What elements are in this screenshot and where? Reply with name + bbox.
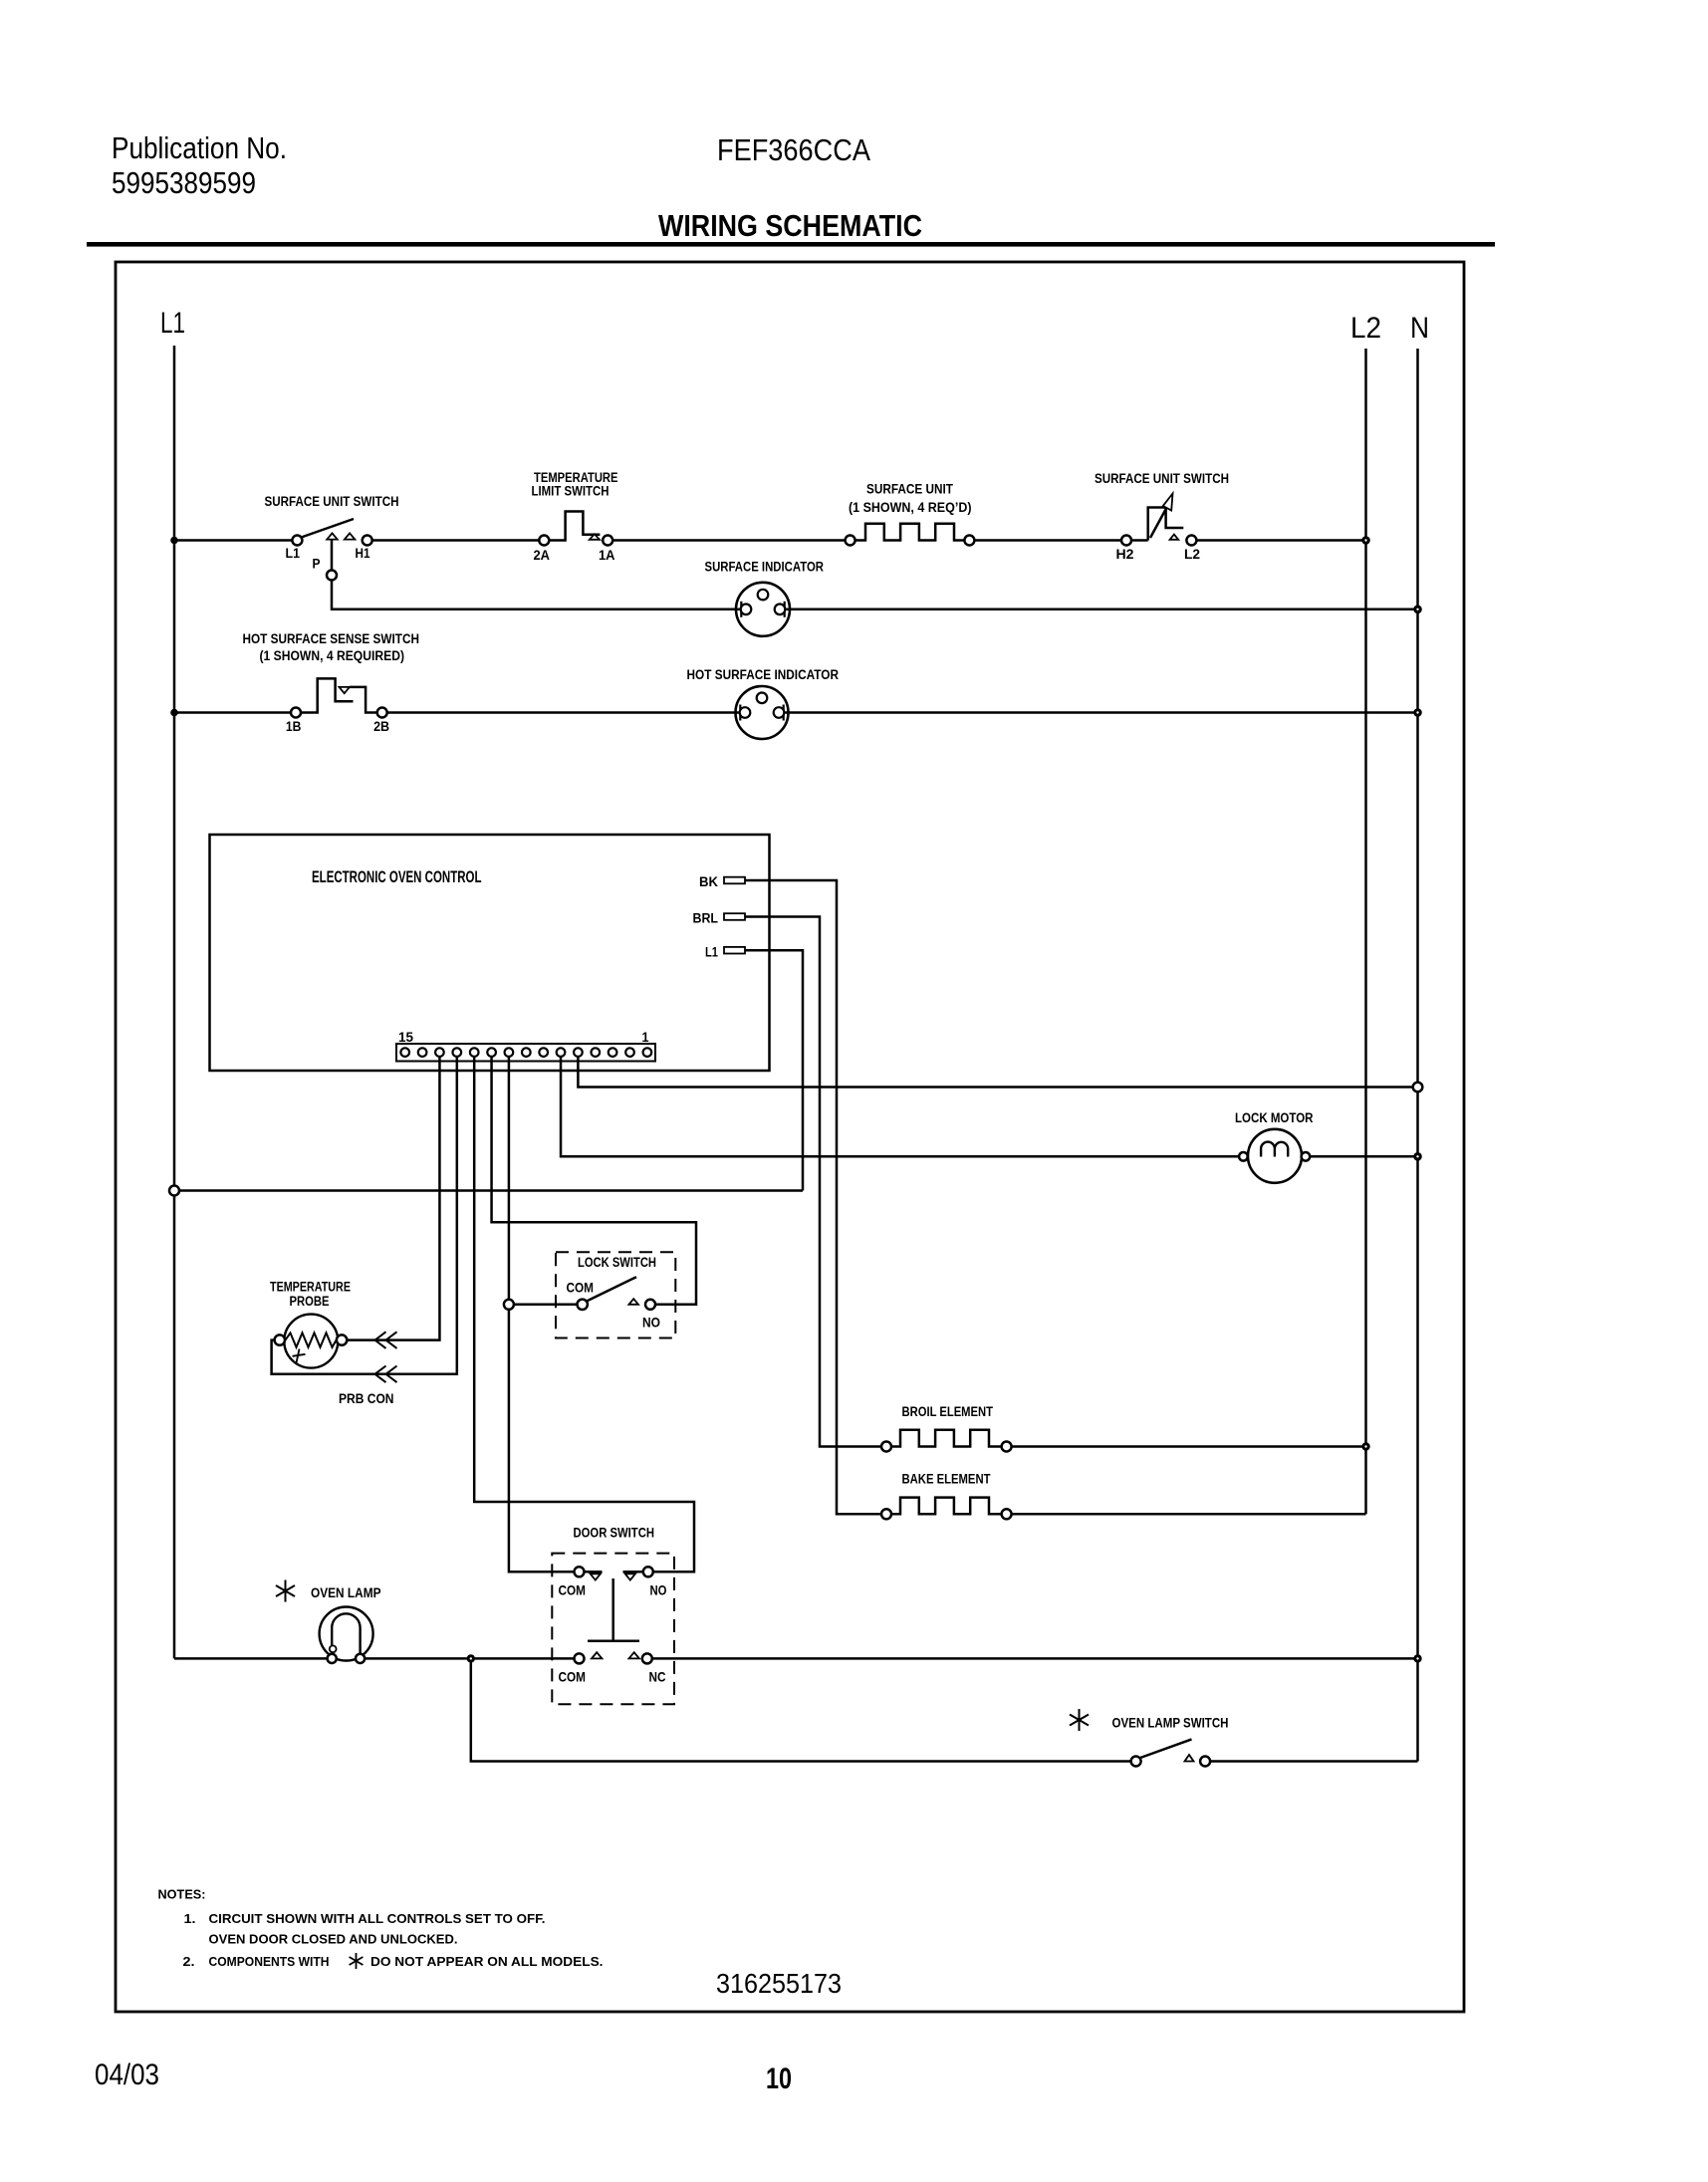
wire L1 rail to EOC L1 input [179, 1189, 803, 1192]
pin 9 of connector strip [505, 1048, 514, 1057]
svg-text:H2: H2 [1116, 547, 1134, 562]
junction on N rail row2 [1413, 606, 1422, 614]
svg-text:OVEN LAMP: OVEN LAMP [311, 1585, 381, 1600]
svg-text:CIRCUIT SHOWN WITH ALL CONTROL: CIRCUIT SHOWN WITH ALL CONTROLS SET TO O… [209, 1911, 546, 1926]
wire N rail vertical [1416, 349, 1419, 1762]
pin 1 of connector strip [643, 1048, 652, 1057]
svg-text:COMPONENTS WITH: COMPONENTS WITH [209, 1954, 330, 1969]
connector chevron PRB upper [375, 1332, 386, 1348]
wire broil element to L2 rail [1012, 1445, 1366, 1448]
junction on N rail (open) y=1091.5 [1413, 1083, 1423, 1092]
svg-text:1A: 1A [599, 548, 615, 563]
pin 5 of connector strip [574, 1048, 583, 1057]
wire bake element to L2 rail corner [1012, 1513, 1366, 1516]
svg-text:PRB CON: PRB CON [339, 1391, 394, 1406]
wire row1 surface unit to right switch [974, 539, 1121, 542]
junction on L2 rail row1 [1361, 536, 1370, 545]
lamp OVEN LAMP [285, 1580, 287, 1602]
svg-text:316255173: 316255173 [716, 1968, 842, 1999]
svg-text:10: 10 [766, 2062, 792, 2095]
svg-text:1.: 1. [184, 1911, 196, 1926]
wire pin6 down to lock motor row [561, 1057, 1239, 1156]
svg-text:L1: L1 [705, 945, 718, 960]
wire L1 rail vertical [173, 346, 176, 1658]
wire row1 limit switch to surface unit [612, 539, 845, 542]
schematic border frame [116, 262, 1464, 2012]
title underline rule [87, 242, 1495, 247]
terminal P (open) [327, 571, 337, 581]
svg-text:FEF366CCA: FEF366CCA [717, 132, 870, 167]
svg-text:2.: 2. [183, 1954, 195, 1969]
svg-text:L1: L1 [286, 546, 301, 561]
svg-text:(1 SHOWN, 4 REQ’D): (1 SHOWN, 4 REQ’D) [849, 500, 972, 515]
svg-text:TEMPERATURE: TEMPERATURE [270, 1280, 351, 1295]
wire door switch NC to N rail [652, 1657, 1418, 1660]
svg-text:SURFACE UNIT SWITCH: SURFACE UNIT SWITCH [265, 494, 399, 509]
svg-text:P: P [313, 557, 321, 572]
wire row3 indicator to N rail [789, 711, 1418, 714]
junction on N rail oven lamp row [1413, 1654, 1421, 1662]
node lock switch branch (open) [504, 1300, 514, 1310]
svg-text:H1: H1 [356, 546, 370, 561]
pin 11 of connector strip [470, 1048, 479, 1057]
door switch upper NO contact [623, 1571, 643, 1574]
svg-text:2B: 2B [373, 719, 389, 734]
door switch lower NC contact [642, 1653, 652, 1663]
svg-text:LOCK SWITCH: LOCK SWITCH [578, 1255, 656, 1270]
svg-text:OVEN LAMP SWITCH: OVEN LAMP SWITCH [1112, 1716, 1229, 1731]
pin 4 of connector strip [592, 1048, 601, 1057]
svg-text:PROBE: PROBE [290, 1294, 330, 1309]
connector chevron PRB lower [375, 1366, 386, 1383]
svg-text:SURFACE UNIT SWITCH: SURFACE UNIT SWITCH [1095, 471, 1229, 486]
wire L2 rail vertical [1364, 349, 1367, 1514]
door switch actuator link [611, 1578, 614, 1640]
wire pin5 down to N rail (y=1091.5) [578, 1057, 1417, 1088]
svg-text:NOTES:: NOTES: [158, 1887, 206, 1902]
svg-text:ELECTRONIC OVEN CONTROL: ELECTRONIC OVEN CONTROL [312, 867, 482, 886]
svg-text:N: N [1410, 312, 1429, 345]
wire lock switch COM branch [514, 1304, 578, 1307]
svg-text:L1: L1 [160, 307, 185, 340]
svg-text:DOOR SWITCH: DOOR SWITCH [574, 1526, 655, 1541]
svg-text:COM: COM [567, 1281, 595, 1296]
svg-text:NC: NC [649, 1670, 666, 1685]
junction on L1 rail row1 [170, 537, 178, 545]
svg-text:NO: NO [650, 1583, 667, 1598]
wire row3 from L1 to sense switch [174, 711, 291, 714]
svg-text:HOT SURFACE INDICATOR: HOT SURFACE INDICATOR [687, 667, 840, 682]
wire BK to bake element [745, 880, 881, 1514]
wire oven lamp switch to N rail [1210, 1760, 1417, 1763]
junction on L2 rail broil row [1361, 1442, 1369, 1450]
junction on L1 rail row3 [170, 709, 178, 717]
wire pin11 down to door switch upper NO [474, 1057, 694, 1572]
door switch upper COM contact [575, 1567, 585, 1576]
pin 6 of connector strip [557, 1048, 566, 1057]
svg-text:BROIL ELEMENT: BROIL ELEMENT [902, 1404, 994, 1419]
svg-text:WIRING SCHEMATIC: WIRING SCHEMATIC [658, 208, 922, 243]
pin 2 of connector strip [625, 1048, 634, 1057]
svg-text:BRL: BRL [693, 911, 719, 926]
wire branch down to oven lamp switch row [471, 1662, 1131, 1761]
svg-text:BAKE ELEMENT: BAKE ELEMENT [902, 1472, 992, 1487]
wire pin10 down to lock switch NO [492, 1057, 696, 1305]
door switch lower COM contact [575, 1653, 585, 1663]
wire P branch to row2 corner [332, 581, 736, 609]
svg-text:Publication No.: Publication No. [112, 130, 287, 165]
wire row1 to L2 rail [1196, 539, 1365, 542]
wire row1 from L1 to surface unit switch [174, 539, 293, 542]
svg-text:DO NOT APPEAR ON ALL MODELS.: DO NOT APPEAR ON ALL MODELS. [370, 1954, 604, 1969]
svg-text:5995389599: 5995389599 [112, 165, 256, 200]
wire pin12 down to temperature probe (lower) [272, 1057, 457, 1374]
svg-text:(1 SHOWN, 4 REQUIRED): (1 SHOWN, 4 REQUIRED) [260, 648, 405, 663]
svg-text:LOCK MOTOR: LOCK MOTOR [1235, 1110, 1314, 1125]
wire row1 switch to temperature limit switch [372, 539, 540, 542]
svg-text:COM: COM [559, 1670, 587, 1685]
svg-text:2A: 2A [534, 548, 551, 563]
junction door switch branch [467, 1654, 475, 1662]
svg-text:15: 15 [398, 1030, 413, 1045]
connector strip P1 (15..1) [396, 1044, 655, 1062]
pin 13 of connector strip [435, 1048, 444, 1057]
svg-text:HOT SURFACE SENSE SWITCH: HOT SURFACE SENSE SWITCH [243, 631, 420, 646]
wire oven lamp to door switch [365, 1657, 574, 1660]
svg-text:L2: L2 [1184, 547, 1200, 562]
wire EOC L1 input down to L1 rail row [745, 950, 803, 1190]
switch LOCK SWITCH (dashed enclosure) [556, 1252, 675, 1337]
wire lock motor to N rail [1310, 1155, 1417, 1158]
svg-text:L2: L2 [1350, 312, 1381, 345]
pin 14 of connector strip [418, 1048, 427, 1057]
junction on N rail lock motor row [1413, 1152, 1422, 1161]
junction on N rail row3 [1413, 708, 1422, 717]
pin 7 of connector strip [539, 1048, 548, 1057]
junction on L1 rail (open) y=1195.5 [169, 1186, 179, 1196]
svg-text:04/03: 04/03 [95, 2059, 159, 2091]
svg-text:OVEN DOOR CLOSED AND UNLOCKED.: OVEN DOOR CLOSED AND UNLOCKED. [209, 1932, 458, 1947]
pin 12 of connector strip [453, 1048, 462, 1057]
switch OVEN LAMP SWITCH [1079, 1709, 1081, 1731]
svg-text:1: 1 [642, 1030, 649, 1045]
ELECTRONIC OVEN CONTROL box U1 [210, 835, 770, 1071]
svg-text:LIMIT SWITCH: LIMIT SWITCH [532, 484, 610, 499]
svg-text:BK: BK [699, 874, 718, 889]
wire oven lamp row from L1 rail [174, 1657, 327, 1660]
wire pin9 down through lock switch node to door switch upper COM [509, 1057, 574, 1572]
pin 15 of connector strip [400, 1048, 409, 1057]
wire row3 sense switch to hot surface indicator [387, 711, 735, 714]
svg-text:COM: COM [559, 1583, 587, 1598]
pin 8 of connector strip [522, 1048, 531, 1057]
svg-text:SURFACE UNIT: SURFACE UNIT [866, 482, 954, 497]
pin 3 of connector strip [609, 1048, 617, 1057]
svg-text:NO: NO [642, 1316, 660, 1331]
svg-text:1B: 1B [286, 719, 302, 734]
pin 10 of connector strip [487, 1048, 496, 1057]
wire pin13 down to temperature probe (upper) [347, 1057, 439, 1340]
svg-text:SURFACE INDICATOR: SURFACE INDICATOR [705, 560, 825, 575]
wire BRL to broil element [745, 917, 881, 1447]
wire row2 indicator to N rail [790, 608, 1418, 611]
